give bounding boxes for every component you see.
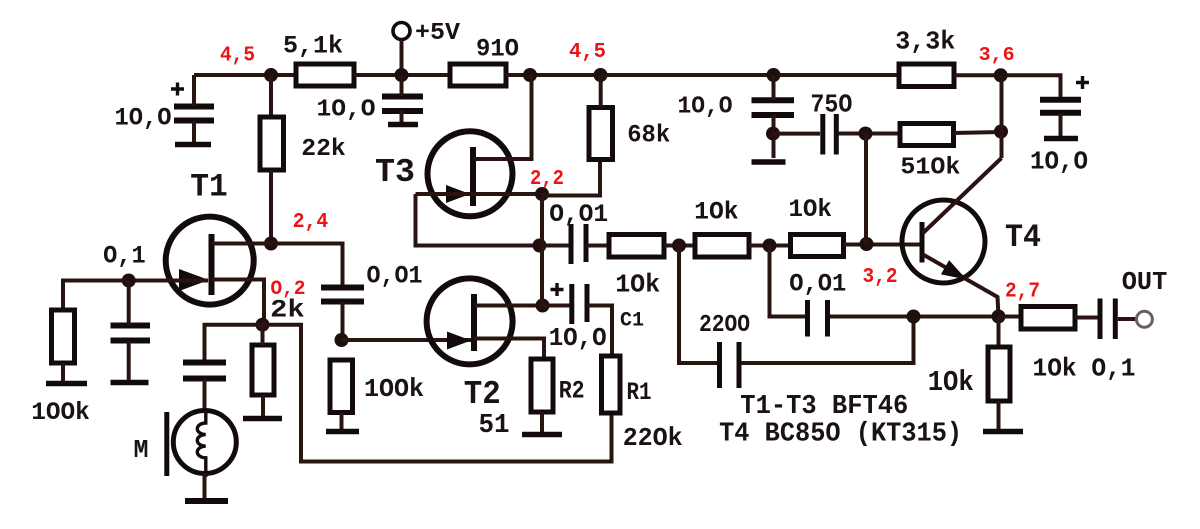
label plus input cap: [171, 83, 184, 96]
ground +5V cap: [388, 122, 418, 128]
svg-text:2,4: 2,4: [293, 211, 329, 234]
svg-text:75O: 75O: [810, 90, 852, 120]
label OUT: [1122, 267, 1168, 297]
label 100k input: [31, 398, 90, 427]
T1 source lead: [212, 280, 265, 325]
svg-text:1Ok O,1: 1Ok O,1: [1033, 354, 1136, 384]
capacitor 10,0 input bottom plate: [174, 118, 214, 124]
resistor 10k third: [791, 235, 844, 257]
svg-text:1Ok: 1Ok: [694, 198, 739, 227]
label node voltage 4,5 right: [569, 41, 606, 64]
label 10k third: [788, 195, 832, 224]
label M: [134, 435, 149, 465]
transistor T4 body: [902, 200, 985, 283]
wire junction to coupling cap: [540, 244, 572, 248]
svg-text:+5V: +5V: [415, 20, 461, 47]
svg-text:T4: T4: [1005, 219, 1041, 256]
label C1: [620, 310, 644, 333]
label 68k: [627, 121, 670, 150]
label node voltage 2,7: [1005, 281, 1040, 304]
wire 750 to 510k: [839, 132, 901, 136]
node T4 base: [860, 237, 874, 251]
capacitor C1 left plate: [569, 284, 574, 324]
resistor 2k: [252, 345, 274, 395]
svg-text:68k: 68k: [627, 121, 670, 150]
label node voltage 3,2: [863, 266, 898, 289]
svg-text:O,O1: O,O1: [789, 270, 846, 299]
capacitor 2200 left plate: [717, 342, 722, 388]
svg-text:3,2: 3,2: [863, 266, 898, 289]
svg-text:91O: 91O: [476, 35, 519, 64]
T3 drain lead: [473, 75, 532, 159]
junction T3 collector riser: [523, 68, 537, 82]
ground gate cap: [111, 380, 149, 386]
svg-text:1OOk: 1OOk: [364, 374, 424, 404]
label T1: [190, 169, 228, 206]
node 4,5 left junction: [264, 68, 278, 82]
wire rail node 4,5 to 3,3k: [601, 73, 900, 77]
capacitor 10,0 input top plate: [174, 104, 214, 110]
resistor 5,1k: [296, 64, 354, 86]
label 10,0 input cap: [115, 103, 172, 132]
svg-text:2k: 2k: [270, 295, 305, 324]
wire 100k input stub: [61, 363, 65, 383]
label 10k 0,1 output: [1033, 354, 1136, 384]
label node voltage 4,5 left: [220, 45, 255, 68]
svg-text:1Ok: 1Ok: [788, 195, 832, 224]
junction feedback top: [859, 127, 873, 141]
wire microphone to ground: [203, 474, 207, 500]
node 2,2: [535, 187, 549, 201]
capacitor 0,01 coupling left plate: [569, 224, 574, 264]
microphone M body: [173, 411, 236, 474]
resistor 68k: [589, 108, 613, 160]
wire R2 stub: [540, 412, 544, 433]
T4 emitter arrow: [941, 260, 967, 279]
wire 910 to node 4,5 right: [506, 73, 601, 77]
svg-text:2,2: 2,2: [530, 168, 564, 191]
label 100k T2: [364, 374, 424, 404]
label 3,3k: [895, 27, 955, 57]
wire node 0,1 to 100k: [63, 281, 129, 311]
wire feedback vertical: [864, 134, 868, 245]
resistor 510k: [900, 124, 954, 146]
svg-text:22OO: 22OO: [699, 312, 750, 339]
svg-text:1O,O: 1O,O: [549, 323, 607, 353]
wire +5V stub: [400, 40, 404, 76]
label R1: [627, 378, 652, 407]
svg-text:1OOk: 1OOk: [31, 398, 90, 427]
wire 3,3k to node 3,6: [954, 73, 1002, 77]
junction below node 2,2: [533, 239, 547, 253]
label T4: [1005, 219, 1041, 256]
label 0,01 T4: [789, 270, 846, 299]
transistor T2 body: [427, 278, 513, 364]
node 0,1: [122, 274, 136, 288]
svg-text:4,5: 4,5: [569, 41, 606, 64]
ground microphone: [185, 498, 228, 504]
wire junction to 750 cap: [773, 132, 820, 136]
node 0,2 above 2k: [256, 318, 270, 332]
wire 2200 to emitter junction: [741, 317, 914, 364]
T3 channel bar: [470, 147, 476, 206]
wire input cap stubs: [192, 75, 196, 143]
wire 2k stub top: [261, 325, 265, 345]
node 2,4: [264, 237, 278, 251]
svg-text:O,O1: O,O1: [549, 200, 608, 229]
transistor T3 body: [428, 131, 513, 216]
svg-text:T1: T1: [190, 169, 228, 206]
label 750: [810, 90, 852, 120]
svg-text:1O,O: 1O,O: [678, 93, 733, 120]
svg-text:OUT: OUT: [1122, 267, 1168, 297]
wire 10k emitter stub: [997, 401, 1001, 430]
node 4,5 right: [594, 68, 608, 82]
wire C1 to R1: [587, 306, 612, 359]
node T2 gate: [335, 333, 349, 347]
label 5,1k: [283, 32, 343, 61]
label 10,0 C1: [549, 323, 607, 353]
svg-text:1O,O: 1O,O: [317, 97, 376, 124]
wire feedback bottom run: [263, 325, 612, 462]
wire 510k to collector riser: [954, 132, 1002, 133]
svg-text:T2: T2: [464, 376, 501, 413]
label plus 10,0 out: [1076, 76, 1089, 89]
capacitor 0,01 interstage top plate: [321, 285, 364, 291]
wire junction B down to 0,01 T4: [770, 246, 806, 317]
label 10k first: [615, 270, 660, 300]
label 2k: [270, 295, 305, 324]
resistor R2 51: [531, 359, 553, 412]
capacitor mic top plate: [183, 360, 226, 366]
capacitor mic bottom plate: [183, 376, 226, 382]
T2 channel bar: [471, 294, 477, 351]
T1 gate lead: [129, 279, 208, 283]
junction +5V rail: [395, 68, 409, 82]
ground 100k input: [46, 381, 87, 387]
label caption transistor types line 2: [719, 419, 962, 449]
label node voltage 3,6: [979, 44, 1015, 66]
svg-text:5,1k: 5,1k: [283, 32, 343, 61]
capacitor 0,1 out right plate: [1113, 299, 1118, 340]
wire 22k to node 2,4: [269, 170, 273, 244]
wire cap 0,1 to OUT terminal: [1118, 317, 1136, 321]
junction 10k chain B: [763, 239, 777, 253]
label 2200: [699, 312, 750, 339]
T1 drain lead: [212, 242, 272, 246]
label +5V: [415, 20, 461, 47]
wire 2k node to mic cap: [205, 325, 263, 361]
microphone M side bar: [164, 412, 169, 476]
label 51: [479, 411, 510, 441]
svg-text:T1-T3 BFT46: T1-T3 BFT46: [740, 392, 908, 422]
label 510k: [900, 154, 960, 181]
label node voltage 2,2: [530, 168, 564, 191]
label 0,01 coupling: [549, 200, 608, 229]
ground 100k T2: [326, 429, 359, 435]
node 2,7: [992, 310, 1006, 324]
wire node 2,2 down to T2 drain: [540, 194, 544, 306]
svg-text:M: M: [134, 435, 149, 465]
capacitor 10,0 out top plate: [1040, 97, 1081, 103]
resistor 3,3k: [899, 64, 954, 87]
svg-text:T4 BC85O (KT315): T4 BC85O (KT315): [719, 419, 962, 449]
wire 10k first to second: [664, 244, 695, 248]
power terminal +5V: [393, 23, 410, 40]
capacitor 750 left plate: [820, 114, 825, 155]
ground R2: [522, 432, 562, 438]
transistor T1 body: [166, 217, 254, 305]
svg-text:51: 51: [479, 411, 510, 441]
resistor 10k first: [609, 235, 664, 258]
svg-text:O,O1: O,O1: [367, 262, 423, 291]
T2 source lead: [474, 339, 544, 360]
label 10k emitter: [928, 366, 974, 399]
wire 0,01 T4 to node 2,7: [830, 315, 999, 319]
T2 drain lead: [474, 304, 543, 308]
junction 10k chain A: [672, 239, 686, 253]
wire decoupling cap stubs: [772, 75, 776, 158]
wire 2k stub bottom: [261, 395, 265, 417]
svg-text:22k: 22k: [301, 136, 346, 163]
label 0,01 interstage: [367, 262, 423, 291]
svg-text:3,6: 3,6: [979, 44, 1015, 66]
junction decoupling cap: [767, 68, 781, 82]
label R2: [559, 376, 585, 405]
label node voltage 0,2: [271, 278, 306, 301]
capacitor 0,1 gate bottom plate: [111, 338, 151, 344]
T1 channel bar: [209, 234, 215, 295]
resistor R1 220k: [602, 356, 621, 413]
capacitor C1 right plate: [585, 284, 590, 322]
wire junction A to 2200 cap: [679, 246, 717, 364]
capacitor 0,01 interstage bottom plate: [321, 299, 364, 305]
capacitor 2200 right plate: [737, 342, 742, 388]
svg-text:22Ok: 22Ok: [623, 423, 683, 453]
wire 10,0 out stub: [1059, 113, 1063, 137]
label node voltage 0,1: [103, 241, 146, 270]
ground input cap: [175, 142, 211, 148]
ground 10k emitter: [983, 429, 1023, 435]
label T2: [464, 376, 501, 413]
junction collector riser: [994, 125, 1008, 139]
capacitor 0,01 T4 left plate: [805, 300, 810, 337]
svg-text:1Ok: 1Ok: [615, 270, 660, 300]
wire top rail left segment: [194, 73, 296, 77]
capacitor 0,01 coupling right plate: [584, 224, 589, 262]
wire node 2,7 to output 10k: [999, 315, 1022, 319]
wire coupling cap to 10k first: [586, 244, 609, 248]
svg-text:4,5: 4,5: [220, 45, 255, 68]
resistor 10k emitter: [988, 347, 1010, 401]
capacitor 0,1 gate top plate: [111, 323, 151, 329]
capacitor 0,01 T4 right plate: [825, 300, 830, 337]
svg-text:2,7: 2,7: [1005, 281, 1040, 304]
wire node 3,6 to output cap: [1002, 75, 1061, 99]
junction T2 drain: [536, 299, 550, 313]
T4 emitter lead: [923, 255, 999, 317]
capacitor 10,0 decoupling top plate: [752, 97, 795, 103]
wire 100k T2 stub: [340, 413, 344, 431]
wire mic cap to microphone: [203, 379, 207, 412]
wire cap 0,01 to T2 gate node: [341, 302, 345, 340]
resistor 100k input: [52, 310, 75, 363]
T3 gate arrow: [446, 185, 470, 203]
svg-text:R1: R1: [627, 378, 652, 407]
T3 feedback loop wire: [416, 194, 540, 246]
T4 collector lead: [923, 158, 1002, 233]
ground 2k: [243, 416, 282, 422]
wire 22k top: [269, 75, 273, 117]
junction decoupling bottom: [766, 127, 780, 141]
svg-text:1Ok: 1Ok: [928, 366, 974, 399]
label plus C1: [551, 283, 564, 296]
capacitor 10,0 at +5V top plate: [382, 94, 423, 100]
label 910: [476, 35, 519, 64]
svg-text:O,1: O,1: [103, 241, 146, 270]
T1 gate arrow: [179, 269, 209, 291]
wire +5V cap stubs: [400, 75, 404, 123]
terminal OUT: [1136, 311, 1152, 327]
svg-text:1O,O: 1O,O: [115, 103, 172, 132]
capacitor 10,0 decoupling bottom plate: [752, 112, 795, 118]
wire 68k top: [599, 75, 603, 108]
capacitor 10,0 at +5V bottom plate: [382, 108, 423, 114]
svg-text:3,3k: 3,3k: [895, 27, 955, 57]
label 10,0 at +5V cap: [317, 97, 376, 124]
svg-text:C1: C1: [620, 310, 644, 333]
T4 base bar: [920, 222, 925, 263]
wire gate cap stubs: [127, 281, 131, 382]
resistor 910: [450, 64, 506, 86]
capacitor 10,0 out bottom plate: [1040, 110, 1081, 116]
T2 gate lead: [342, 338, 472, 342]
resistor 100k T2: [330, 360, 353, 413]
label 10,0 out: [1030, 147, 1088, 177]
capacitor 750 right plate: [834, 114, 839, 155]
ground decoupling cap: [752, 159, 786, 165]
wire node 2,4 to cap 0,01: [271, 244, 343, 287]
label 220k: [623, 423, 683, 453]
node 3,6: [994, 68, 1008, 82]
wire 10k third to T4 base: [844, 243, 922, 247]
wire collector riser: [1000, 75, 1004, 158]
resistor 22k: [260, 117, 284, 170]
resistor 10k output: [1021, 307, 1075, 330]
wire node 2,2 to 68k: [542, 160, 600, 196]
label 10k second: [694, 198, 739, 227]
label caption transistor types line 1: [740, 392, 908, 422]
svg-text:1O,O: 1O,O: [1030, 147, 1088, 177]
resistor 10k second: [695, 235, 749, 258]
wire node 2,7 to emitter 10k: [997, 317, 1001, 348]
label node voltage 2,4: [293, 211, 329, 234]
wire 10k output to cap 0,1: [1075, 316, 1098, 320]
T2 gate arrow: [447, 332, 471, 350]
label 10,0 decoupling: [678, 93, 733, 120]
wire T2 drain to C1: [543, 304, 572, 308]
T3 gate source line: [416, 192, 543, 196]
svg-text:T3: T3: [375, 154, 415, 191]
svg-text:R2: R2: [559, 376, 585, 405]
capacitor 0,1 out left plate: [1098, 299, 1103, 340]
ground 10,0 out: [1044, 136, 1078, 142]
wire 5,1k to +5V junction: [354, 73, 450, 77]
microphone M coil: [197, 411, 206, 477]
label 22k: [301, 136, 346, 163]
svg-text:51Ok: 51Ok: [900, 154, 960, 181]
junction emitter network: [907, 310, 921, 324]
label T3: [375, 154, 415, 191]
wire 10k second to third: [749, 244, 791, 248]
